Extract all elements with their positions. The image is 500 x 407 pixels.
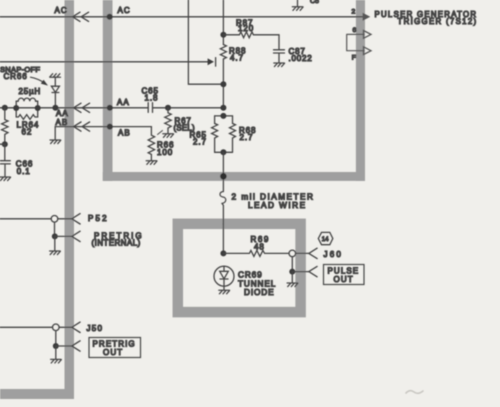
ground below CR69: [219, 290, 230, 294]
node AB on shield: [107, 124, 113, 130]
wire into tunnel compartment: [222, 224, 224, 253]
svg-text:LEAD WIRE: LEAD WIRE: [248, 201, 307, 210]
svg-text:OUT: OUT: [103, 348, 123, 357]
svg-text:2.7: 2.7: [240, 133, 254, 142]
svg-text:C8: C8: [310, 0, 319, 5]
node R67 tap: [165, 105, 171, 111]
feedthrough terminal J60: [289, 250, 296, 257]
svg-text:120: 120: [238, 24, 254, 33]
capacitor C65: [148, 103, 152, 113]
parallel resistors R65 R68 loop: [215, 116, 233, 152]
resistor R87: [223, 32, 279, 38]
svg-text:6: 6: [353, 27, 357, 34]
diode CR66: [54, 77, 56, 86]
box label PULSE OUT: [324, 265, 365, 285]
svg-text:F: F: [352, 55, 356, 62]
wire below J60: [291, 257, 293, 272]
connector chevrons on AB: [74, 122, 90, 131]
svg-text:AB: AB: [118, 129, 131, 138]
wire AB horizontal: [55, 126, 151, 128]
svg-text:CR69: CR69: [238, 270, 263, 279]
svg-text:DIODE: DIODE: [244, 288, 274, 297]
ground at top edge: [297, 0, 299, 7]
svg-text:AA: AA: [117, 98, 130, 107]
resistor R67: [165, 108, 171, 134]
svg-text:2.7: 2.7: [193, 138, 207, 147]
svg-text:(INTERNAL): (INTERNAL): [92, 238, 141, 247]
node pulse out tap: [289, 269, 295, 275]
node bottom of loop: [220, 149, 226, 155]
tunnel diode compartment frame: [178, 224, 301, 312]
capacitor C87: [274, 35, 285, 63]
svg-text:AC: AC: [55, 6, 68, 15]
svg-text:62: 62: [22, 128, 33, 137]
svg-text:4.7: 4.7: [230, 54, 244, 63]
svg-text:J60: J60: [324, 250, 344, 259]
faint scan mark: [406, 391, 423, 394]
ground below J50: [55, 346, 57, 359]
terminal circle P52: [51, 216, 58, 223]
sel tick: [158, 131, 163, 135]
connector chevron J60: [309, 248, 317, 258]
wire vertical R87/R88 branch: [222, 0, 224, 108]
connector chevron pulse out: [309, 266, 317, 276]
node LR64 right: [35, 105, 41, 111]
connector chevrons on AA: [74, 103, 90, 112]
wire AA horizontal: [0, 107, 223, 109]
node on shield bar: [220, 173, 227, 180]
node LR64 left: [13, 105, 19, 111]
lead wire squiggle: [220, 192, 226, 204]
svg-text:2: 2: [352, 9, 356, 16]
pin F arrow: [364, 47, 372, 55]
connector chevron pretrig out: [72, 341, 80, 351]
connector chevron J50: [72, 322, 80, 332]
node AA on shield: [107, 105, 113, 111]
hex flag 14: [318, 232, 333, 244]
node at y84: [220, 81, 226, 87]
capacitor C66: [0, 144, 10, 176]
svg-text:48: 48: [254, 243, 265, 252]
wire vertical feed to R88 node: [188, 0, 223, 84]
node AA at main branch: [220, 105, 226, 111]
svg-text:100: 100: [157, 148, 173, 157]
svg-text:J50: J50: [87, 324, 104, 333]
resistor R88: [220, 45, 226, 60]
svg-text:14: 14: [322, 237, 329, 243]
ground below pulse out tap: [291, 272, 293, 283]
inductor LR64 parallel combo: [15, 101, 17, 108]
wire AC horizontal: [0, 16, 362, 18]
resistor R66: [148, 127, 154, 161]
node R87 junction: [220, 32, 226, 38]
wire P52: [0, 218, 51, 220]
pin 2 arrow to pulser generator: [362, 16, 363, 18]
ground below C87: [274, 63, 285, 67]
connector chevrons on AC: [73, 12, 89, 21]
tunnel diode CR69: [214, 266, 234, 286]
wire stub left: [0, 143, 5, 145]
ground below R67: [163, 134, 174, 138]
node left drop: [2, 105, 8, 111]
shield bar middle vertical: [103, 0, 113, 181]
inverted ground above CR66: [50, 74, 61, 78]
svg-text:1.8: 1.8: [145, 93, 159, 102]
svg-text:CR66: CR66: [4, 72, 28, 81]
shield bar horizontal (trigger compartment bottom): [103, 172, 365, 181]
pin 6 / F bracket wires: [347, 34, 364, 50]
terminal circle J50: [53, 324, 60, 331]
resistor R64 (left, unlabeled): [2, 108, 8, 144]
svg-text:TRIGGER (7S12): TRIGGER (7S12): [398, 17, 478, 26]
node CR66 at AA: [52, 105, 58, 111]
shield bar right vertical: [356, 0, 365, 181]
wire J50: [0, 326, 53, 328]
pointer arrow to CR66: [31, 77, 46, 83]
wire from loop down through shield: [222, 152, 224, 191]
node tunnel diode junction: [220, 250, 226, 256]
node AC on shield: [107, 14, 113, 20]
node lower left: [2, 141, 8, 147]
svg-text:OUT: OUT: [334, 275, 354, 284]
ground drop at AB left end: [54, 127, 56, 140]
svg-text:P52: P52: [88, 214, 109, 223]
pretrig out tap: [55, 331, 57, 346]
ground below R66: [146, 161, 157, 165]
svg-text:AB: AB: [56, 118, 69, 127]
connector chevron pretrig internal: [72, 231, 80, 241]
svg-text:25µH: 25µH: [19, 87, 42, 96]
box label PRETRIG OUT: [89, 338, 141, 358]
ground below C66: [0, 177, 11, 181]
pin 6 arrow: [364, 31, 372, 39]
node top of loop: [220, 113, 226, 119]
shield bar left compartment: [0, 0, 74, 399]
wire arrow line to R88 node: [0, 61, 208, 63]
svg-text:AC: AC: [118, 6, 131, 15]
pretrig internal tap: [54, 222, 56, 236]
ground below P52: [54, 236, 56, 250]
arrowhead pointing at node: [208, 58, 214, 65]
svg-text:0.1: 0.1: [17, 167, 31, 176]
connector chevron P52: [72, 214, 80, 224]
resistor R69: [223, 250, 289, 256]
svg-text:.0022: .0022: [289, 54, 313, 63]
svg-text:AA: AA: [56, 109, 69, 118]
